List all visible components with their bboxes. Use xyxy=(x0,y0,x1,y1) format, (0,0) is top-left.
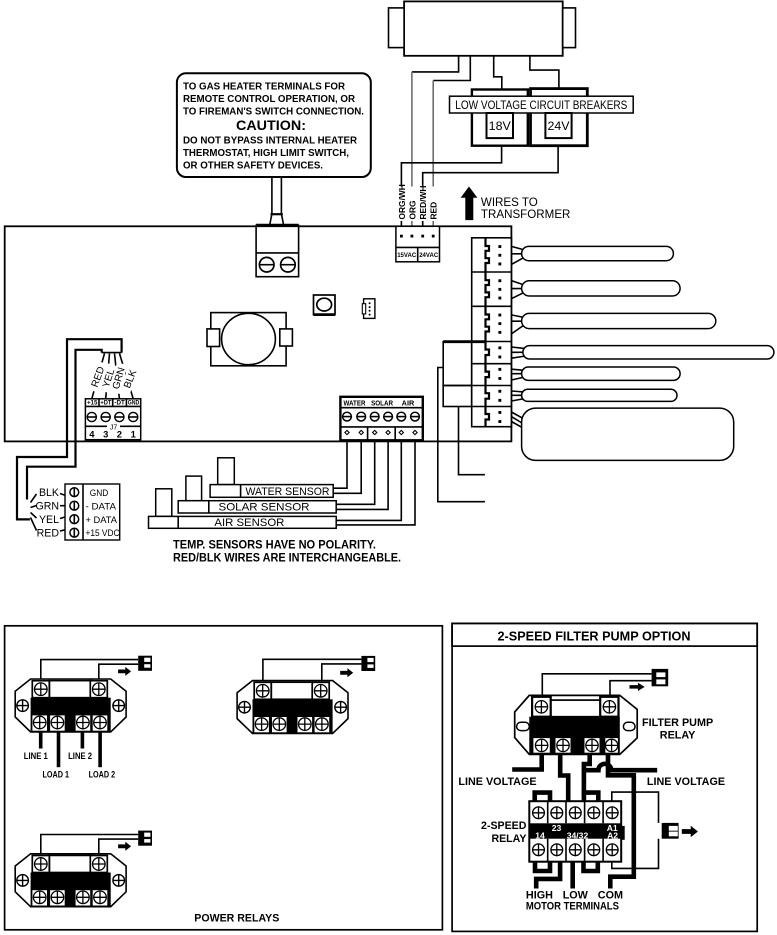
wire A1 coil (thin) xyxy=(612,792,659,868)
wire K2 stub xyxy=(459,407,485,475)
svg-text:34/32: 34/32 xyxy=(567,831,589,841)
svg-text:GND: GND xyxy=(128,400,140,407)
air sensor xyxy=(149,489,337,529)
svg-text:23: 23 xyxy=(552,823,562,833)
cable fan 2 xyxy=(511,281,524,299)
wire BLK to J7 pin1 xyxy=(120,354,134,399)
label RED xyxy=(428,187,438,222)
LED indicator xyxy=(314,295,336,315)
svg-text:15VAC: 15VAC xyxy=(397,252,416,259)
svg-text:WATER: WATER xyxy=(344,398,367,407)
svg-text:LINE VOLTAGE: LINE VOLTAGE xyxy=(647,776,725,788)
right connector column xyxy=(472,238,512,427)
wire load1 to 2-speed relay xyxy=(560,754,568,801)
wire relay2 terminal to plug xyxy=(263,659,362,681)
wire filter relay terminal2 to plug xyxy=(610,681,652,697)
wire water sensor 1 xyxy=(333,440,347,488)
connector plug P5 xyxy=(486,364,490,386)
arrow RLY1 xyxy=(118,667,131,676)
svg-text:TO FIREMAN'S SWITCH CONNECTION: TO FIREMAN'S SWITCH CONNECTION. xyxy=(183,107,364,118)
connector J7 xyxy=(85,399,140,440)
svg-text:24VAC: 24VAC xyxy=(419,252,438,259)
svg-text:BLK: BLK xyxy=(39,487,59,499)
leader LOAD 1 xyxy=(57,732,61,767)
bottom jumper right xyxy=(584,862,598,871)
wire relay3 terminal to plug xyxy=(41,835,138,855)
svg-text:DO NOT BYPASS INTERNAL HEATER: DO NOT BYPASS INTERNAL HEATER xyxy=(183,136,357,147)
svg-text:LINE 2: LINE 2 xyxy=(68,751,92,761)
svg-text:SOLAR SENSOR: SOLAR SENSOR xyxy=(219,502,310,514)
wire YEL to J7 pin3 xyxy=(106,354,110,399)
svg-text:POWER RELAYS: POWER RELAYS xyxy=(194,912,279,924)
wire GRN to J7 pin2 xyxy=(115,354,120,399)
wire K1 stub xyxy=(438,368,485,502)
label RED (J7 wire) xyxy=(87,361,109,393)
arrow wires-to-transformer xyxy=(461,187,478,221)
label ORG xyxy=(407,187,417,222)
wire HIGH xyxy=(536,862,560,889)
wire relay2 terminal2 to plug xyxy=(322,664,362,682)
plug 2-speed coil xyxy=(662,823,679,839)
svg-text:THERMOSTAT, HIGH LIMIT SWITCH,: THERMOSTAT, HIGH LIMIT SWITCH, xyxy=(183,148,349,159)
label BLK (J7 wire) xyxy=(120,364,141,394)
sensor input strip fan wires xyxy=(31,494,66,532)
circuit breaker 24V xyxy=(531,89,588,146)
wire load2 to 2-speed relay xyxy=(584,754,590,795)
power relay RLY3 xyxy=(15,854,126,907)
plug RLY1 xyxy=(138,656,152,671)
relay module K2 xyxy=(443,386,472,407)
svg-text:OR OTHER SAFETY DEVICES.: OR OTHER SAFETY DEVICES. xyxy=(183,161,323,172)
plug RLY3 xyxy=(138,831,152,846)
svg-text:TO GAS HEATER TERMINALS FOR: TO GAS HEATER TERMINALS FOR xyxy=(183,82,345,93)
wire RED to J7 pin4 xyxy=(92,354,105,399)
cable 4 xyxy=(523,346,774,359)
svg-text:+15: +15 xyxy=(87,400,98,407)
svg-text:LOW VOLTAGE CIRCUIT BREAKERS: LOW VOLTAGE CIRCUIT BREAKERS xyxy=(455,98,627,112)
plug RLY2 xyxy=(361,656,375,671)
cable 2 xyxy=(522,281,681,296)
connector plug P2 xyxy=(486,272,490,306)
wire filter relay to plug xyxy=(542,674,651,697)
svg-text:LOAD 1: LOAD 1 xyxy=(43,770,70,780)
wire air sensor 1 xyxy=(336,440,401,520)
power relay RLY2 xyxy=(237,681,348,734)
bottom jumper left xyxy=(535,862,550,871)
wire LOW xyxy=(570,862,575,889)
water sensor xyxy=(210,458,333,498)
wire air sensor 2 xyxy=(336,440,415,525)
label ORG/WH xyxy=(396,184,406,221)
wire RED (gray) xyxy=(432,81,434,237)
svg-text:+ DATA: + DATA xyxy=(86,514,118,525)
wire ORG (gray) xyxy=(411,72,413,236)
svg-text:18V: 18V xyxy=(489,119,512,133)
leader LINE 2 xyxy=(81,732,85,749)
wire solar sensor 1 xyxy=(336,440,375,504)
svg-text:+15 VDC: +15 VDC xyxy=(86,528,120,538)
heater terminal block (2 screws) xyxy=(256,225,299,276)
connector plug P6 xyxy=(486,386,490,407)
svg-text:A2: A2 xyxy=(607,831,618,841)
cable 5 xyxy=(522,367,681,380)
svg-text:LINE 1: LINE 1 xyxy=(24,751,48,761)
wire water sensor 2 xyxy=(333,440,361,493)
svg-text:RED: RED xyxy=(37,528,60,540)
svg-text:1: 1 xyxy=(131,428,136,439)
arrow 2-speed coil xyxy=(682,826,698,837)
cable fan 5 xyxy=(511,369,524,380)
svg-text:TRANSFORMER: TRANSFORMER xyxy=(481,208,571,221)
cable 3 xyxy=(522,313,716,328)
wire transformer to RED xyxy=(433,56,470,81)
label 24V xyxy=(545,113,571,138)
connector plug P1 xyxy=(486,238,490,272)
wire relay1 terminal2 to plug xyxy=(99,664,138,680)
svg-text:-DT: -DT xyxy=(114,400,125,407)
cable fan 3 xyxy=(511,315,524,334)
svg-text:24V: 24V xyxy=(547,119,570,133)
svg-text:RED: RED xyxy=(429,202,439,220)
svg-text:YEL: YEL xyxy=(39,514,59,526)
svg-text:2-SPEED: 2-SPEED xyxy=(481,820,527,832)
svg-text:2: 2 xyxy=(117,428,122,439)
wire 24V breaker to RED/WH xyxy=(423,146,558,236)
svg-text:2-SPEED FILTER PUMP OPTION: 2-SPEED FILTER PUMP OPTION xyxy=(498,629,691,644)
svg-text:FILTER PUMP: FILTER PUMP xyxy=(642,717,713,729)
svg-text:WATER SENSOR: WATER SENSOR xyxy=(246,486,330,498)
label RED/WH xyxy=(418,186,428,221)
filter pump relay xyxy=(515,695,638,754)
power relays panel xyxy=(5,626,443,930)
cable fan 1 xyxy=(511,246,524,264)
svg-text:RED/BLK WIRES ARE INTERCHANGEA: RED/BLK WIRES ARE INTERCHANGEABLE. xyxy=(173,550,401,564)
cable fan 7 xyxy=(511,412,525,429)
pin header J xyxy=(362,299,375,319)
label YEL (J7 wire) xyxy=(99,363,119,393)
power relay RLY1 xyxy=(15,679,126,732)
sensor input terminal strip xyxy=(65,484,120,540)
wire transformer to 18V breaker xyxy=(494,56,502,90)
label HIGH LOW COM xyxy=(526,890,623,913)
svg-text:3: 3 xyxy=(103,428,108,439)
connector plug P7 xyxy=(486,407,490,427)
connector plug P4 xyxy=(486,342,490,364)
label 18V xyxy=(487,113,514,138)
arrow RLY3 xyxy=(118,842,131,851)
svg-text:14: 14 xyxy=(535,831,545,841)
plug filter relay xyxy=(652,669,669,686)
speaker/buzzer xyxy=(207,313,292,366)
svg-text:- DATA: - DATA xyxy=(86,500,117,511)
svg-text:ORG/WH: ORG/WH xyxy=(397,184,407,219)
cable 7 (large harness) xyxy=(522,408,734,460)
wire line voltage left xyxy=(512,754,542,770)
wire transformer to 24V breaker xyxy=(530,56,559,89)
svg-text:CAUTION:: CAUTION: xyxy=(236,118,306,133)
terminal block WATER SOLAR AIR xyxy=(340,397,422,441)
2-speed option panel xyxy=(452,623,757,931)
label GRN (J7 wire) xyxy=(109,362,129,394)
label LOW VOLTAGE CIRCUIT BREAKERS xyxy=(450,96,634,113)
svg-text:4: 4 xyxy=(89,428,95,439)
cable 6 xyxy=(522,389,677,401)
svg-text:RELAY: RELAY xyxy=(660,730,696,742)
svg-text:LINE VOLTAGE: LINE VOLTAGE xyxy=(458,776,536,788)
caution note box xyxy=(177,73,371,177)
svg-text:GND: GND xyxy=(90,487,109,498)
svg-text:ORG: ORG xyxy=(407,200,417,219)
wire pair caution box to heater terminal block xyxy=(270,178,284,225)
svg-text:AIR: AIR xyxy=(402,398,415,407)
cable fan 4 xyxy=(511,347,525,358)
leader LINE 1 xyxy=(39,732,43,749)
arrow filter relay xyxy=(630,683,645,691)
text WIRES TO TRANSFORMER xyxy=(481,196,571,221)
connector plug P3 xyxy=(486,306,490,341)
svg-text:AIR SENSOR: AIR SENSOR xyxy=(214,517,284,529)
svg-text:REMOTE CONTROL OPERATION, OR: REMOTE CONTROL OPERATION, OR xyxy=(183,94,355,105)
circuit breaker 18V xyxy=(472,90,528,146)
jumper 14-23 xyxy=(535,793,550,802)
label 2-SPEED RELAY xyxy=(481,820,527,845)
leader LOAD 2 xyxy=(98,732,102,767)
label FILTER PUMP RELAY xyxy=(642,717,713,742)
wire relay1 terminal to plug xyxy=(41,660,138,680)
terminal block 15VAC 24VAC xyxy=(396,226,440,261)
svg-text:MOTOR TERMINALS: MOTOR TERMINALS xyxy=(526,901,619,913)
jumper 34-A xyxy=(584,793,598,802)
transformer T1 xyxy=(389,1,576,55)
solar sensor xyxy=(178,476,336,514)
arrow RLY2 xyxy=(340,668,353,677)
wire COM run xyxy=(608,754,634,889)
svg-text:SOLAR: SOLAR xyxy=(371,398,394,407)
cable fan 6 xyxy=(511,391,524,401)
wire transformer to ORG xyxy=(412,56,459,72)
wire solar sensor 2 xyxy=(336,440,388,509)
cable 1 xyxy=(522,246,674,260)
wire relay3 terminal2 to plug xyxy=(99,839,138,855)
control board outline xyxy=(5,226,512,441)
svg-text:+DT: +DT xyxy=(100,400,111,407)
svg-text:RELAY: RELAY xyxy=(491,833,526,845)
wire line voltage right with hop xyxy=(582,764,657,770)
wire 18V breaker to ORG/WH xyxy=(401,146,501,236)
svg-text:RED/WH: RED/WH xyxy=(418,186,428,220)
svg-text:LOAD 2: LOAD 2 xyxy=(89,770,116,780)
2-speed relay block xyxy=(529,801,624,862)
J7 cable duct xyxy=(17,339,122,519)
svg-text:GRN: GRN xyxy=(35,501,59,513)
note temp sensors polarity xyxy=(173,538,401,565)
relay module K1 xyxy=(443,342,486,386)
